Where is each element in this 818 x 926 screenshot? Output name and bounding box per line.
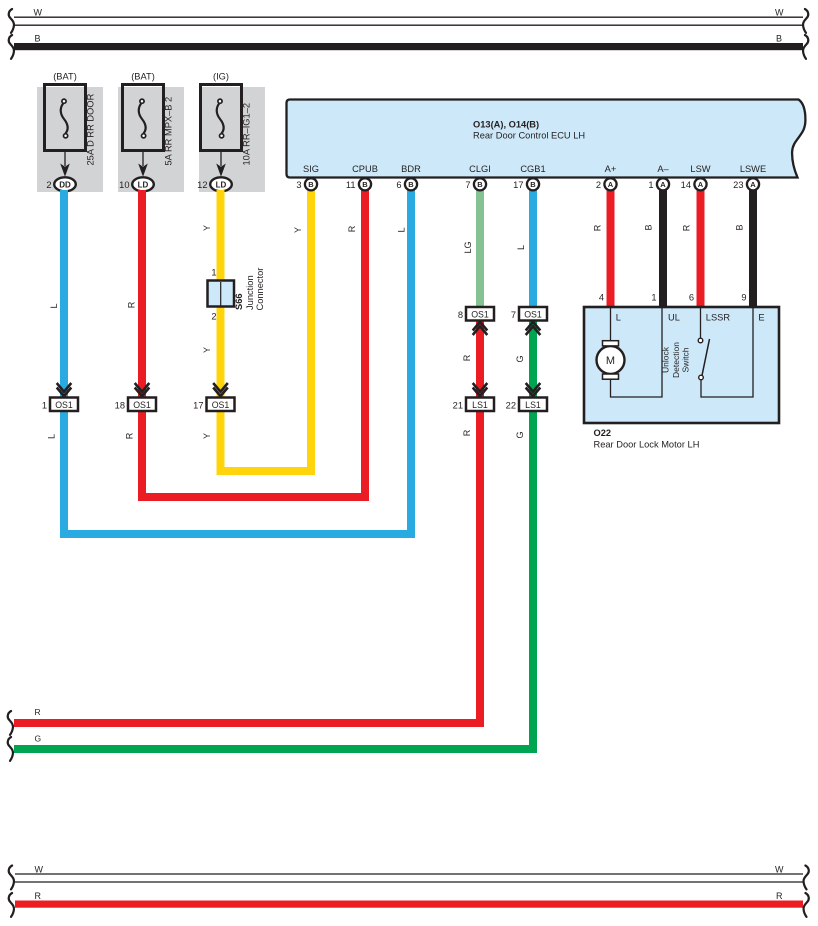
- svg-text:25A D RR DOOR: 25A D RR DOOR: [86, 93, 96, 165]
- svg-text:R: R: [347, 225, 357, 232]
- connector 17 OS1: [193, 398, 234, 412]
- svg-text:L: L: [516, 245, 526, 250]
- svg-text:10A RR–IG1–2: 10A RR–IG1–2: [242, 103, 252, 166]
- svg-text:Y: Y: [202, 433, 212, 439]
- ECU subtitle Rear Door Control ECU LH: [473, 131, 585, 141]
- svg-text:Y: Y: [293, 227, 303, 233]
- svg-text:R: R: [776, 891, 783, 901]
- unlock detection switch label: [661, 342, 691, 378]
- S66 pin 1 label: [211, 268, 216, 278]
- fuse 25A D RR DOOR: [45, 85, 86, 151]
- wire: R (red) from fuse 10-LD down, right, up to CPUB: [142, 190, 365, 497]
- connector pin 12 LD: [197, 177, 232, 191]
- svg-text:B: B: [477, 180, 483, 189]
- svg-text:B: B: [644, 224, 654, 230]
- wire: top B bus (black): [14, 43, 803, 50]
- svg-text:Y: Y: [202, 225, 212, 231]
- arrow from fuse 25A D RR DOOR to connector: [60, 151, 70, 177]
- svg-text:B: B: [408, 180, 414, 189]
- S66 pin 2 label: [211, 312, 216, 322]
- bus label W top-left: [34, 8, 43, 18]
- svg-text:6: 6: [689, 293, 694, 303]
- O22 internal label UL: [668, 313, 680, 323]
- svg-text:R: R: [681, 224, 691, 231]
- svg-text:OS1: OS1: [212, 400, 230, 410]
- wire color label LG at (471,247.5): [463, 241, 473, 253]
- svg-text:4: 4: [599, 293, 604, 303]
- svg-text:2: 2: [596, 180, 601, 190]
- connector 22 LS1: [506, 398, 547, 412]
- ECU pin 23 (A) at 753: [733, 178, 759, 190]
- svg-text:O22: O22: [594, 428, 612, 438]
- svg-text:A+: A+: [605, 164, 617, 174]
- arrow from fuse 10A RR&#8211;IG1&#8211;2 to connector: [216, 151, 226, 177]
- wire break: bottom-right of W bus: [804, 866, 809, 890]
- ECU pin name A&#8211;: [657, 164, 669, 174]
- wire break: top-right of W bus: [803, 9, 808, 33]
- junction connector S66: [208, 281, 235, 307]
- svg-text:Y: Y: [202, 347, 212, 353]
- svg-text:LS1: LS1: [525, 400, 541, 410]
- svg-text:21: 21: [453, 400, 463, 410]
- S66 name label: [234, 293, 244, 310]
- fuse block background (5A RR MPX&#8211;B 2): [118, 87, 184, 192]
- svg-text:(BAT): (BAT): [53, 72, 77, 82]
- wire color label L at (524,247.5): [516, 245, 526, 250]
- wire color label L at (404.5,230): [397, 227, 407, 232]
- svg-text:LD: LD: [216, 180, 227, 189]
- motor M: [597, 341, 625, 380]
- bus label B top-right: [776, 33, 782, 43]
- svg-text:7: 7: [465, 180, 470, 190]
- fuse 5A RR MPX&#8211;B 2: [123, 85, 164, 151]
- wire color label G at (523,435): [515, 431, 525, 438]
- connector 21 LS1: [453, 398, 494, 412]
- svg-text:LS1: LS1: [472, 400, 488, 410]
- connector pin 10 LD: [119, 177, 154, 191]
- connector pin 2 DD: [46, 177, 75, 191]
- wire: B (black) from LSWE to O22 pin 9: [749, 190, 757, 308]
- wire: LG (light green) from CLGI down to 8 OS1: [476, 190, 484, 313]
- wire color label R at (470,433): [462, 429, 472, 436]
- wire color label Y at (210,436): [202, 433, 212, 439]
- svg-text:R: R: [127, 301, 137, 308]
- svg-text:L: L: [47, 434, 57, 439]
- svg-text:G: G: [515, 431, 525, 438]
- fuse 10A RR&#8211;IG1&#8211;2: [201, 85, 242, 151]
- connector 18 OS1 chevron: [135, 383, 150, 396]
- O22 label: [594, 428, 612, 438]
- wire: L (blue) from CGB1 down to 7 OS1: [529, 190, 537, 313]
- connector 22 LS1 chevron: [526, 383, 541, 396]
- bus label R bottom-left: [35, 891, 42, 901]
- svg-text:A: A: [608, 180, 614, 189]
- svg-text:S66: S66: [234, 293, 244, 310]
- wire: B (black) from A- to O22 pin 1: [659, 190, 667, 308]
- ECU pin name LSW: [690, 164, 710, 174]
- svg-text:22: 22: [506, 400, 516, 410]
- wire color label G at (523,359): [515, 355, 525, 362]
- ECU pin 1 (A) at 663: [648, 178, 669, 190]
- fuse rating label (IG): [213, 72, 229, 82]
- svg-text:1: 1: [651, 293, 656, 303]
- connector 17 OS1 chevron: [213, 383, 228, 396]
- svg-text:LD: LD: [138, 180, 149, 189]
- wire color label R at (132.3,436): [124, 432, 134, 439]
- ECU pin name A+: [605, 164, 617, 174]
- svg-text:DD: DD: [59, 180, 71, 189]
- wire: G (green) from 7 OS1 through 22 LS1 down to G bus, left to edge: [14, 315, 533, 749]
- svg-text:Junction: Junction: [245, 275, 255, 310]
- connector 18 OS1: [115, 398, 156, 412]
- O22 internal wire: switch to E pin: [701, 308, 753, 397]
- svg-text:Detection: Detection: [671, 342, 681, 378]
- ECU title O13(A), O14(B): [473, 120, 539, 130]
- svg-text:23: 23: [733, 180, 743, 190]
- svg-text:R: R: [35, 707, 41, 717]
- svg-text:3: 3: [296, 180, 301, 190]
- ECU pin name LSWE: [740, 164, 766, 174]
- wire break: bottom-left of W bus: [9, 866, 14, 890]
- wire color label R at (689.3,228): [681, 224, 691, 231]
- svg-text:A–: A–: [657, 164, 669, 174]
- svg-text:R: R: [124, 432, 134, 439]
- svg-text:LSWE: LSWE: [740, 164, 766, 174]
- svg-text:B: B: [776, 33, 782, 43]
- ECU pin 2 (A) at 610.5: [596, 178, 617, 190]
- svg-text:L: L: [616, 313, 621, 323]
- svg-text:W: W: [34, 8, 43, 18]
- bus label W bottom-left: [35, 865, 44, 875]
- ECU pin name SIG: [303, 164, 319, 174]
- connector 8 OS1: [458, 307, 494, 321]
- svg-text:R: R: [462, 429, 472, 436]
- svg-text:Rear Door Lock Motor LH: Rear Door Lock Motor LH: [594, 440, 700, 450]
- ECU pin 17 (B) at 533: [513, 178, 539, 190]
- svg-text:5A RR MPX–B 2: 5A RR MPX–B 2: [164, 97, 174, 166]
- svg-text:L: L: [49, 303, 59, 308]
- svg-text:Rear Door Control ECU LH: Rear Door Control ECU LH: [473, 131, 585, 141]
- wire color label Y at (210,228): [202, 225, 212, 231]
- svg-text:G: G: [515, 355, 525, 362]
- wire: R (red) from 8 OS1 through 21 LS1 down to R bus, left to edge: [14, 315, 480, 723]
- wire color label Y at (210,350): [202, 347, 212, 353]
- svg-text:1: 1: [648, 180, 653, 190]
- wire: R (red) from A+ to O22 pin 4: [607, 190, 615, 308]
- svg-text:R: R: [462, 354, 472, 361]
- connector 7 OS1: [511, 307, 547, 321]
- wire break: top-right of B bus: [803, 35, 808, 59]
- fuse name label 25A D RR DOOR: [86, 93, 96, 165]
- fuse block background (10A RR&#8211;IG1&#8211;2): [199, 87, 265, 192]
- svg-text:(BAT): (BAT): [131, 72, 155, 82]
- svg-text:W: W: [35, 865, 44, 875]
- svg-text:18: 18: [115, 400, 125, 410]
- connector 21 LS1 chevron: [473, 383, 488, 396]
- ECU pin name CGB1: [520, 164, 545, 174]
- svg-text:Unlock: Unlock: [661, 346, 671, 373]
- wire: R (red) from LSW to O22 pin 6: [697, 190, 705, 308]
- ECU pin 14 (A) at 700.5: [681, 178, 707, 190]
- wire color label B at (651.7,227.5): [644, 224, 654, 230]
- ECU pin 11 (B) at 365: [346, 178, 371, 190]
- svg-text:SIG: SIG: [303, 164, 319, 174]
- bus label W bottom-right: [775, 865, 784, 875]
- svg-text:6: 6: [396, 180, 401, 190]
- bus label B top-left: [35, 33, 41, 43]
- O22 pin 6: [689, 293, 694, 303]
- wire color label B at (742.5,227.5): [735, 224, 745, 230]
- svg-text:B: B: [735, 224, 745, 230]
- svg-text:Connector: Connector: [255, 268, 265, 311]
- svg-text:CLGI: CLGI: [469, 164, 491, 174]
- arrow from fuse 5A RR MPX&#8211;B 2 to connector: [138, 151, 148, 177]
- svg-text:B: B: [530, 180, 536, 189]
- svg-text:1: 1: [211, 268, 216, 278]
- svg-text:14: 14: [681, 180, 691, 190]
- svg-text:LSW: LSW: [690, 164, 710, 174]
- wire color label L at (57,306): [49, 303, 59, 308]
- bus label W top-right: [775, 8, 784, 18]
- svg-text:10: 10: [119, 180, 129, 190]
- fuse rating label (BAT): [53, 72, 77, 82]
- bus label R bottom-right: [776, 891, 783, 901]
- wire: L (blue) from fuse 2-DD down, right, up to BDR: [64, 190, 411, 534]
- svg-text:9: 9: [741, 293, 746, 303]
- O22 pin 4: [599, 293, 604, 303]
- svg-text:LG: LG: [463, 241, 473, 253]
- ECU pin name CLGI: [469, 164, 491, 174]
- svg-text:G: G: [35, 734, 42, 744]
- svg-text:OS1: OS1: [471, 309, 489, 319]
- svg-text:1: 1: [42, 400, 47, 410]
- svg-text:UL: UL: [668, 313, 680, 323]
- fuse name label 5A RR MPX&#8211;B 2: [164, 97, 174, 166]
- ECU O13/O14 Rear Door Control ECU LH box: [287, 100, 806, 178]
- svg-text:A: A: [698, 180, 704, 189]
- wire break: top-left of W bus: [9, 9, 14, 33]
- wire color label R at (600.5,228): [593, 224, 603, 231]
- O22 internal label L: [616, 313, 621, 323]
- svg-text:Switch: Switch: [681, 347, 691, 372]
- connector 8 OS1 chevron: [473, 322, 488, 335]
- ECU pin name CPUB: [352, 164, 378, 174]
- wire break: bottom-left of R bus: [9, 893, 14, 917]
- wire color label R at (470,358): [462, 354, 472, 361]
- svg-text:B: B: [35, 33, 41, 43]
- svg-text:8: 8: [458, 310, 463, 320]
- svg-text:BDR: BDR: [401, 164, 421, 174]
- O22 internal label LSSR: [706, 313, 731, 323]
- wire: Y (yellow) from fuse 12-LD down through S66, right, up to SIG: [221, 190, 312, 471]
- svg-text:11: 11: [346, 180, 356, 190]
- connector 1 OS1: [42, 398, 78, 412]
- wire: top W bus (white wire, double line): [14, 17, 803, 25]
- svg-text:(IG): (IG): [213, 72, 229, 82]
- svg-text:B: B: [308, 180, 314, 189]
- bus label G left: [35, 734, 42, 744]
- motor unit O22 Rear Door Lock Motor LH box: [584, 307, 779, 423]
- ECU pin 7 (B) at 480: [465, 178, 486, 190]
- fuse block background (25A D RR DOOR): [37, 87, 103, 192]
- O22 internal wire: motor to UL pin: [611, 308, 663, 397]
- svg-text:A: A: [750, 180, 756, 189]
- wire break: left of R bus: [8, 711, 13, 735]
- svg-text:2: 2: [46, 180, 51, 190]
- wire: bottom W bus (white wire, double line): [15, 874, 803, 882]
- O22 internal label E: [758, 313, 764, 323]
- wire: bottom R bus (red): [15, 901, 803, 908]
- svg-text:OS1: OS1: [133, 400, 151, 410]
- svg-text:17: 17: [513, 180, 523, 190]
- ECU pin name BDR: [401, 164, 421, 174]
- connector 1 OS1 chevron: [57, 383, 72, 396]
- wire color label R at (355,229): [347, 225, 357, 232]
- wire color label R at (134.5,305): [127, 301, 137, 308]
- connector 7 OS1 chevron: [526, 322, 541, 335]
- svg-text:2: 2: [211, 312, 216, 322]
- svg-text:CGB1: CGB1: [520, 164, 545, 174]
- svg-text:CPUB: CPUB: [352, 164, 378, 174]
- ECU pin 6 (B) at 411: [396, 178, 417, 190]
- bus label R left: [35, 707, 41, 717]
- unlock detection switch: [698, 308, 709, 380]
- svg-text:17: 17: [193, 400, 203, 410]
- svg-text:M: M: [606, 355, 615, 367]
- O22 name label: [594, 440, 700, 450]
- wire break: left of G bus: [8, 737, 13, 761]
- svg-text:R: R: [593, 224, 603, 231]
- svg-text:O13(A), O14(B): O13(A), O14(B): [473, 120, 539, 130]
- fuse rating label (BAT): [131, 72, 155, 82]
- svg-text:12: 12: [197, 180, 207, 190]
- svg-text:L: L: [397, 227, 407, 232]
- svg-text:W: W: [775, 865, 784, 875]
- wire break: top-left of B bus: [9, 35, 14, 59]
- svg-text:B: B: [362, 180, 368, 189]
- O22 pin 9: [741, 293, 746, 303]
- wire color label L at (54.5,436.5): [47, 434, 57, 439]
- svg-text:7: 7: [511, 310, 516, 320]
- fuse name label 10A RR&#8211;IG1&#8211;2: [242, 103, 252, 166]
- svg-text:LSSR: LSSR: [706, 313, 731, 323]
- wire color label Y at (301,230): [293, 227, 303, 233]
- svg-text:OS1: OS1: [55, 400, 73, 410]
- svg-text:W: W: [775, 8, 784, 18]
- O22 internal wire: pin4 to motor: [610, 308, 612, 341]
- S66 Connector label: [255, 268, 265, 311]
- S66 Junction label: [245, 275, 255, 310]
- O22 pin 1: [651, 293, 656, 303]
- svg-text:E: E: [758, 313, 764, 323]
- svg-text:OS1: OS1: [524, 309, 542, 319]
- svg-text:A: A: [660, 180, 666, 189]
- wire break: bottom-right of R bus: [804, 893, 809, 917]
- ECU pin 3 (B) at 311: [296, 178, 317, 190]
- svg-text:R: R: [35, 891, 42, 901]
